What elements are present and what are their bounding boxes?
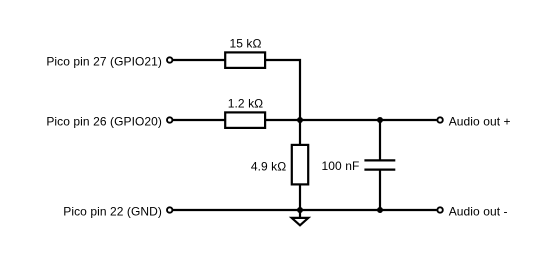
svg-text:Pico pin 22 (GND): Pico pin 22 (GND) [63, 204, 162, 218]
resistor R1 15 kΩ [225, 52, 265, 68]
terminal Pico pin 22 [167, 207, 172, 212]
svg-text:1.2 kΩ: 1.2 kΩ [228, 96, 263, 110]
capacitor C1 100 nF [364, 160, 395, 169]
wire [173, 59, 225, 61]
svg-text:15 kΩ: 15 kΩ [229, 36, 261, 50]
resistor R3 4.9 kΩ [292, 145, 308, 185]
wire [299, 210, 301, 218]
svg-text:Audio out -: Audio out - [449, 204, 508, 218]
junction [297, 207, 303, 213]
junction [297, 117, 303, 123]
wire [299, 120, 301, 145]
wire [379, 120, 381, 160]
junction [377, 207, 383, 213]
svg-text:4.9 kΩ: 4.9 kΩ [251, 159, 286, 173]
junction [377, 117, 383, 123]
wire [379, 170, 381, 210]
terminal Pico pin 27 [167, 57, 172, 62]
ground [292, 218, 309, 225]
wire [299, 184, 301, 210]
terminal Audio out - [437, 207, 442, 212]
wire [265, 60, 300, 120]
svg-text:Pico pin 27 (GPIO21): Pico pin 27 (GPIO21) [46, 54, 162, 68]
wire [173, 119, 225, 121]
svg-text:Pico pin 26 (GPIO20): Pico pin 26 (GPIO20) [46, 114, 162, 128]
wire [265, 119, 437, 121]
svg-text:Audio out +: Audio out + [449, 114, 511, 128]
wire [173, 209, 437, 211]
resistor R2 1.2 kΩ [225, 112, 265, 128]
svg-text:100 nF: 100 nF [322, 159, 360, 173]
terminal Audio out + [437, 117, 442, 122]
terminal Pico pin 26 [167, 117, 172, 122]
